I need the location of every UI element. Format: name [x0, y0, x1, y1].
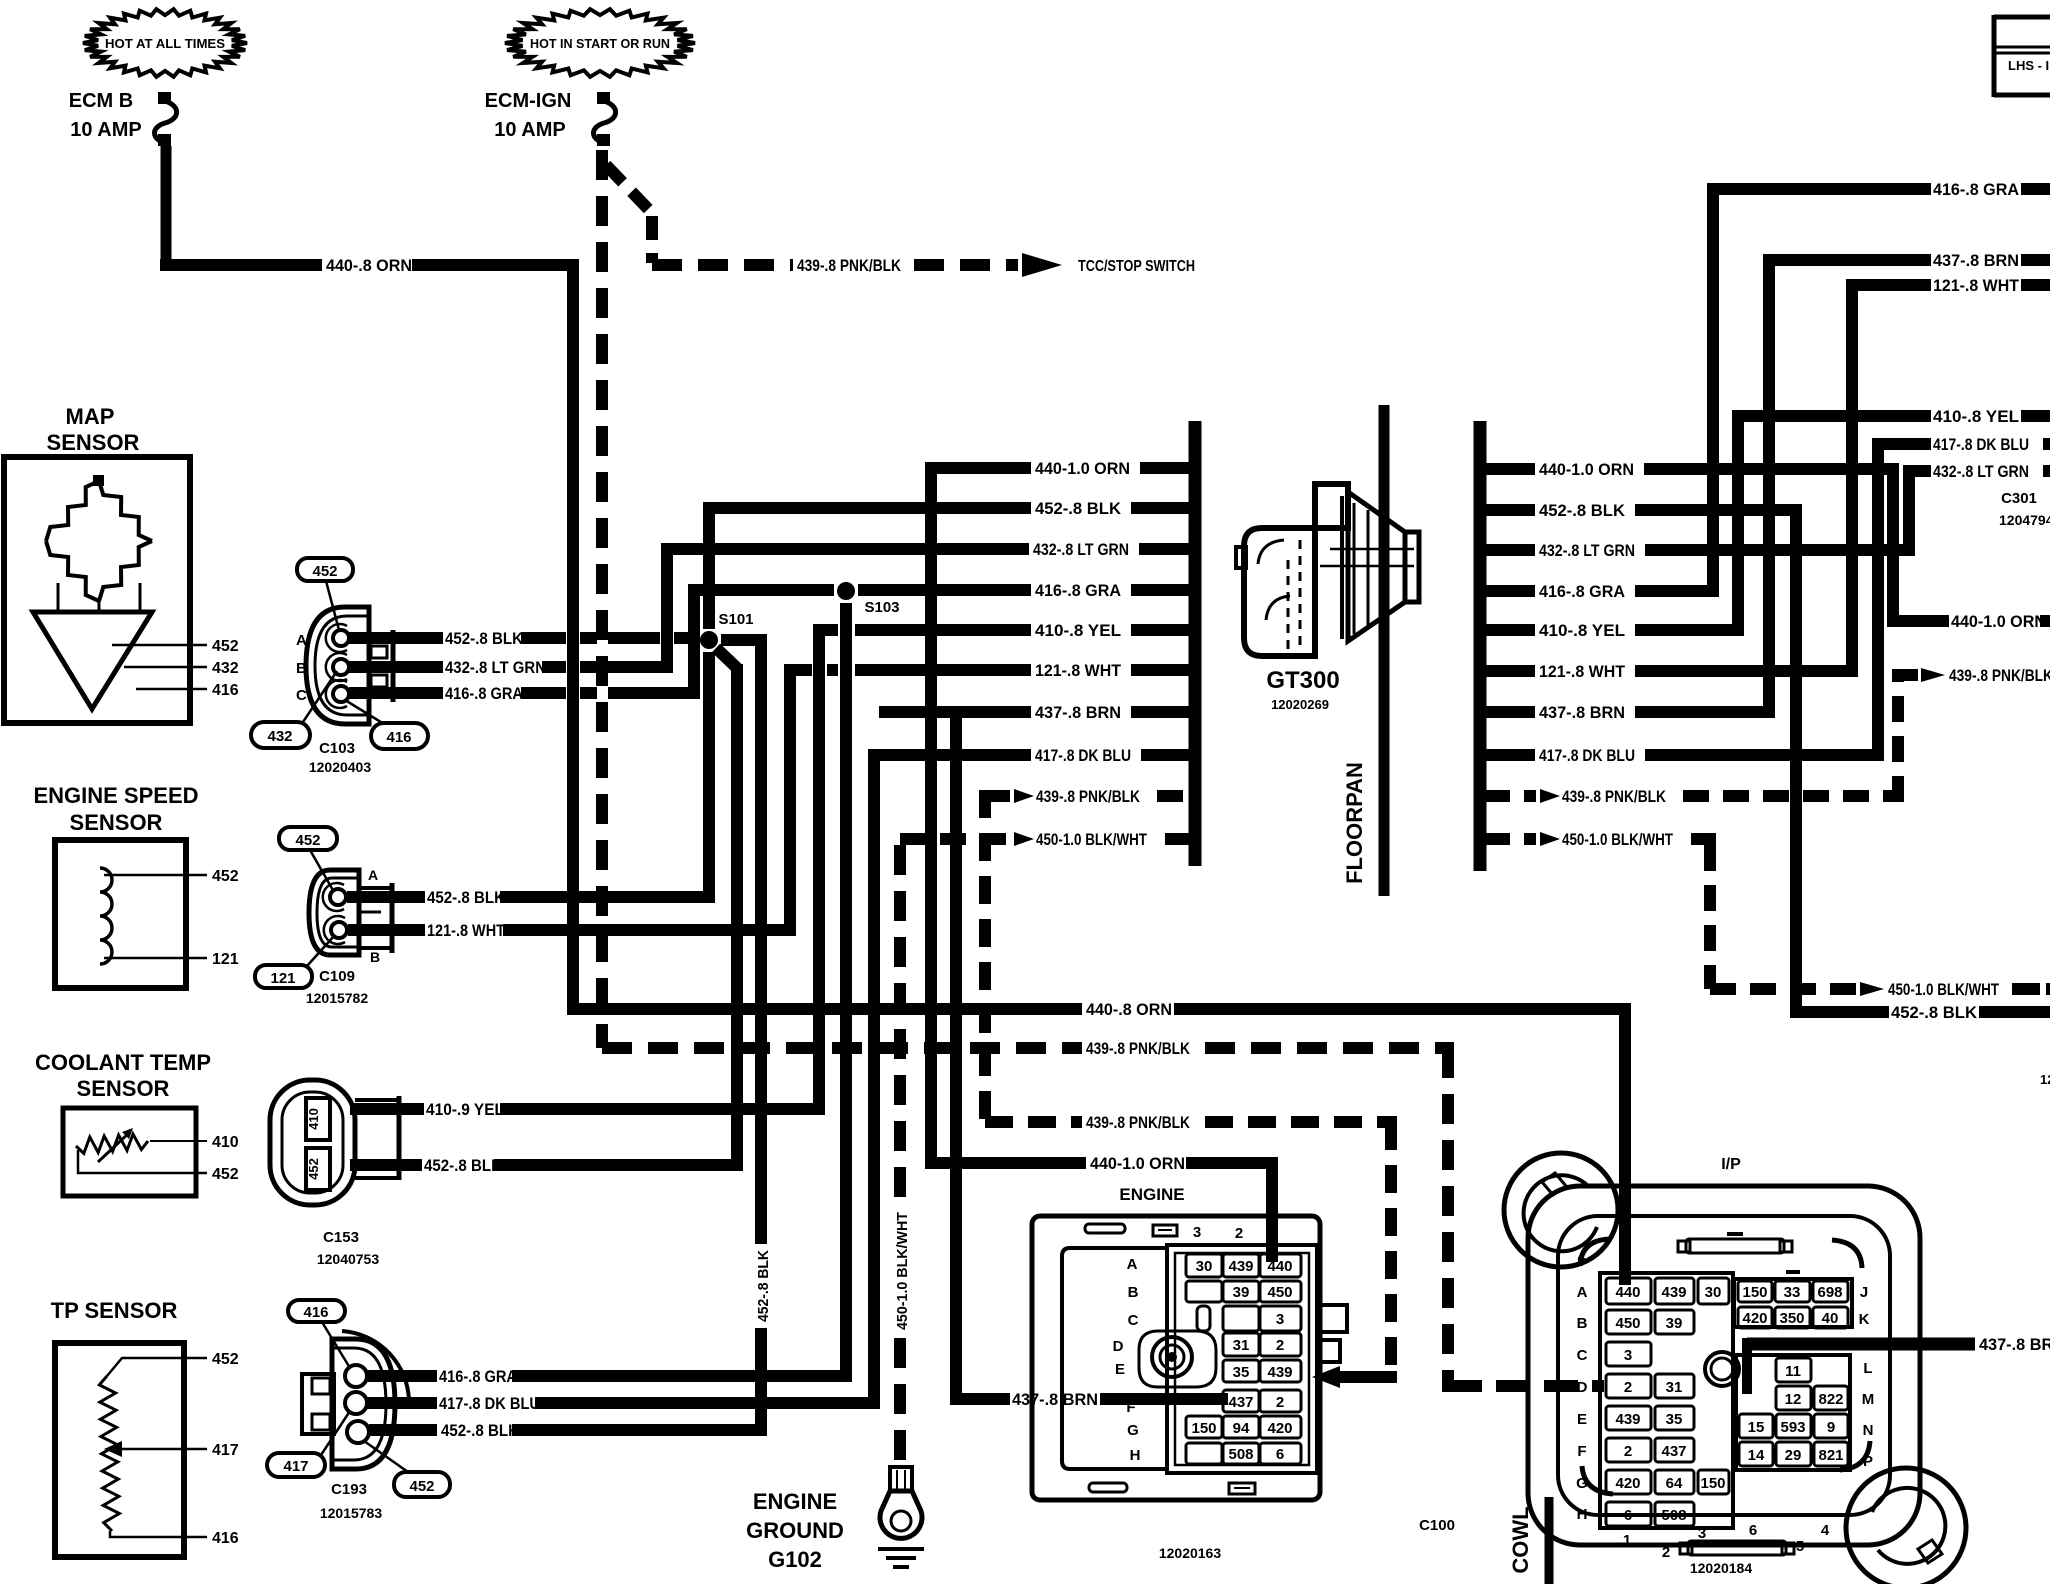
wire 452-.8 BLK C109-A segment 2: [500, 891, 715, 903]
connector C153 pin slot 410: [306, 1098, 330, 1140]
wire 432 vertical to bus stub: [661, 543, 673, 673]
I/P connector letter L: [1863, 1360, 1872, 1377]
I/P connector cell H2 508: [1655, 1502, 1694, 1526]
wire 417-.8 DK BLU exit 2: [2043, 438, 2050, 450]
wire 416-.8 GRA right-bus stub: [1484, 585, 1719, 597]
I/P connector bolt: [1705, 1352, 1739, 1386]
TP sensor lead 452: [107, 1358, 207, 1376]
svg-text:12020163: 12020163: [1159, 1545, 1222, 1561]
ENGINE connector top slots: [1085, 1224, 1177, 1236]
label 12020403: [309, 759, 372, 775]
label 439-.8 PNK/BLK (row 1048): [1086, 1039, 1191, 1058]
svg-text:410-.8 YEL: 410-.8 YEL: [1539, 621, 1625, 640]
wire 417-.8 DK BLU riser: [1872, 438, 1884, 761]
MAP sensor lead 452: [112, 644, 207, 647]
I/P connector cell M2 12: [1776, 1386, 1811, 1410]
leader 417 to C193 pin B: [321, 1411, 350, 1455]
leader 452 to pin A: [326, 581, 339, 630]
wire 416-.8 GRA C103-C segments: [521, 687, 694, 699]
svg-text:3: 3: [1624, 1347, 1632, 1364]
I/P connector corner arc TL: [1578, 1239, 1610, 1266]
arrow to TCC/STOP SWITCH: [1022, 253, 1062, 277]
svg-text:416: 416: [212, 1530, 239, 1547]
I/P connector top slot: [1678, 1234, 1792, 1253]
wire 437-.8 BRN right-bus stub: [1484, 706, 1775, 718]
note box top-right: [1994, 15, 2050, 97]
ENGINE SPEED sensor coil: [100, 868, 112, 964]
label 416-.8 GRA (mid bus): [1035, 581, 1121, 600]
svg-text:2: 2: [1235, 1225, 1243, 1242]
svg-text:2: 2: [1276, 1337, 1284, 1354]
wire 452-.8 BLK from C193-C: [369, 1424, 437, 1436]
wire 439-.8 PNK/BLK dashed vertical x1391: [1385, 1122, 1397, 1383]
I/P connector row J cells: [1738, 1281, 1848, 1302]
svg-text:1: 1: [1623, 1532, 1631, 1549]
svg-text:ECM B: ECM B: [69, 90, 133, 112]
wire 440-1.0 ORN vertical into ENGINE cell 440: [1266, 1163, 1278, 1262]
svg-text:A: A: [368, 867, 378, 883]
I/P connector letter F: [1577, 1443, 1586, 1460]
svg-text:121: 121: [270, 970, 295, 987]
svg-text:A: A: [1127, 1256, 1138, 1273]
ENGINE connector cell A2 439: [1223, 1254, 1259, 1277]
svg-text:A: A: [296, 632, 307, 649]
svg-text:121-.8 WHT: 121-.8 WHT: [1539, 662, 1626, 681]
I/P connector cell A3 30: [1698, 1278, 1729, 1304]
svg-text:C109: C109: [319, 968, 355, 985]
svg-text:MAP: MAP: [66, 404, 115, 429]
wire 452-.8 BLK C153 segment 2: [494, 1159, 743, 1171]
I/P connector left grid frame: [1600, 1273, 1733, 1528]
svg-text:15: 15: [1748, 1419, 1765, 1436]
wire 417-.8 DK BLU right-bus stub: [1484, 749, 1884, 761]
svg-text:416-.8 GRA: 416-.8 GRA: [445, 685, 523, 703]
label 432-.8 LT GRN (C103): [445, 659, 546, 677]
label COWL: [1508, 1506, 1533, 1573]
wire 437-.8 BRN into ENGINE cell: [1100, 1393, 1228, 1405]
svg-text:C: C: [1577, 1347, 1588, 1364]
svg-text:H: H: [1577, 1506, 1588, 1523]
I/P connector cell L2 11: [1776, 1358, 1811, 1382]
svg-text:E: E: [1577, 1411, 1587, 1428]
svg-text:439-.8 PNK/BLK: 439-.8 PNK/BLK: [1949, 666, 2050, 685]
I/P connector cell E2 35: [1655, 1406, 1694, 1430]
svg-text:121-.8 WHT: 121-.8 WHT: [1933, 276, 2020, 295]
junction S103 dot: [837, 582, 855, 600]
wire 437-.8 BRN riser: [1763, 254, 1775, 718]
label 452-.8 BLK (C193): [441, 1422, 519, 1440]
label 452-.8 BLK (exit): [1891, 1003, 1978, 1022]
junction S101 dot: [700, 631, 718, 649]
label 437-.8 BRN (mid bus): [1035, 703, 1121, 722]
wire 452-.8 BLK from C109-A: [347, 891, 425, 903]
svg-text:C193: C193: [331, 1481, 367, 1498]
svg-text:2: 2: [1662, 1544, 1670, 1561]
connector C193 terminal block: [302, 1374, 334, 1434]
wire 452 vertical S101 up to bus stub: [703, 502, 715, 629]
svg-text:F: F: [1126, 1399, 1135, 1416]
I/P connector housing outer: [1528, 1186, 1920, 1545]
svg-text:450-1.0 BLK/WHT: 450-1.0 BLK/WHT: [1888, 980, 1999, 999]
leader 432 to pin B: [303, 671, 337, 722]
svg-text:440: 440: [1615, 1284, 1640, 1301]
wire 450-1.0 BLK/WHT exit dashes 2: [2012, 983, 2050, 995]
label 12040753: [317, 1251, 380, 1267]
wire 439-.8 PNK/BLK exit dashed: [1898, 669, 1918, 681]
wire 452 vertical C153 to S101: [731, 664, 743, 1171]
wire 439-.8 PNK/BLK diagonal branch to TCC: [606, 165, 652, 263]
svg-text:452: 452: [312, 563, 337, 580]
svg-text:29: 29: [1785, 1447, 1802, 1464]
svg-text:150: 150: [1742, 1284, 1767, 1301]
label 417-.8 DK BLU (C301): [1933, 435, 2029, 454]
svg-text:439-.8 PNK/BLK: 439-.8 PNK/BLK: [797, 256, 902, 275]
I/P connector cell P2 29: [1776, 1442, 1811, 1466]
wire 121-.8 WHT C109-B segment 2: [503, 924, 796, 936]
wire 416-.8 GRA mid-bus stub (right of S103): [858, 584, 1191, 596]
svg-text:F: F: [1577, 1443, 1586, 1460]
svg-text:452-.8 BLK: 452-.8 BLK: [755, 1250, 772, 1322]
svg-text:452-.8 BLK: 452-.8 BLK: [1035, 499, 1122, 518]
wire 452 vertical C193 upper: [755, 634, 767, 1244]
I/P connector cell F1 2: [1606, 1438, 1651, 1462]
I/P connector cell P1 14: [1739, 1442, 1773, 1466]
svg-text:121-.8 WHT: 121-.8 WHT: [1035, 661, 1122, 680]
ENGINE connector cell E3 439: [1260, 1360, 1301, 1382]
svg-text:C: C: [1128, 1312, 1139, 1329]
label 450-1.0 BLK/WHT (exit): [1888, 980, 1999, 999]
wire 439-.8 PNK/BLK dashed vertical x985: [979, 790, 991, 1122]
wire 417-.8 DK BLU exit: [1878, 438, 1931, 450]
svg-text:432: 432: [267, 728, 292, 745]
ENGINE connector cell E2 35: [1223, 1360, 1259, 1382]
wire 439-.8 PNK/BLK right-bus stub dashed: [1484, 790, 1904, 802]
label 452-.8 BLK (C109): [427, 889, 505, 907]
label FLOORPAN: [1342, 762, 1367, 884]
arrow 439 exit: [1921, 668, 1945, 682]
svg-text:432-.8 LT GRN: 432-.8 LT GRN: [1033, 540, 1129, 559]
I/P connector letter K: [1859, 1311, 1870, 1328]
label 440-1.0 ORN (C301): [1951, 612, 2046, 631]
wire 452 vertical C193 lower: [755, 1328, 767, 1436]
label 437-.8 BRN (right bus): [1539, 703, 1625, 722]
svg-text:12: 12: [2040, 1072, 2050, 1087]
label 12020184: [1690, 1560, 1753, 1576]
I/P connector letter G: [1576, 1475, 1588, 1492]
TP pin label 416: [212, 1530, 239, 1547]
connector C109 letters: [368, 867, 380, 965]
I/P connector cell N1 15: [1739, 1414, 1773, 1438]
wire 440-.8 ORN long vertical: [567, 259, 579, 1015]
svg-text:HOT IN START OR RUN: HOT IN START OR RUN: [530, 36, 670, 51]
label 439-.8 PNK/BLK (mid bus): [1036, 787, 1141, 806]
connector C103 pin C circle: [326, 680, 349, 708]
svg-text:432: 432: [212, 660, 239, 677]
svg-text:12: 12: [1785, 1391, 1802, 1408]
ENGINE connector cell D2 31: [1223, 1333, 1259, 1356]
I/P connector LMNP block: [1736, 1355, 1850, 1470]
wire 416 vertical to bus stub: [688, 584, 700, 699]
wire 416 vertical C193 to S103: [840, 603, 852, 1382]
wire 432-.8 LT GRN from C103-B: [349, 661, 443, 673]
I/P connector corner arc BR: [1840, 1441, 1870, 1470]
ENGINE connector cell H1 empty: [1186, 1443, 1222, 1464]
I/P connector cell G2 64: [1655, 1470, 1694, 1494]
I/P connector corner arc BL: [1582, 1466, 1613, 1494]
I/P connector letter D: [1577, 1379, 1588, 1396]
ENGINE connector cell D3 2: [1260, 1333, 1301, 1356]
ENGINE connector letter C: [1128, 1312, 1139, 1329]
svg-text:14: 14: [1748, 1447, 1765, 1464]
svg-text:698: 698: [1817, 1284, 1842, 1301]
svg-text:416: 416: [303, 1304, 328, 1321]
leader 452 to C193 pin C: [364, 1441, 408, 1472]
svg-text:5: 5: [1796, 1538, 1804, 1555]
wire 440-.8 ORN horizontal segment: [160, 259, 322, 271]
connector C103 shell: [306, 607, 369, 724]
svg-text:417-.8 DK BLU: 417-.8 DK BLU: [1539, 746, 1635, 765]
svg-text:420: 420: [1267, 1420, 1292, 1437]
label 440-1.0 ORN (mid bus): [1035, 459, 1130, 478]
label TCC/STOP SWITCH: [1078, 258, 1195, 275]
I/P connector bottom slot: [1680, 1541, 1794, 1555]
wire 440-.8 ORN bottom horizontal segment: [573, 1003, 1082, 1015]
wire 410-.9 YEL segment 2: [500, 1103, 825, 1115]
label 439-.8 PNK/BLK (TCC): [797, 256, 902, 275]
wire 439-.8 PNK/BLK dashed into I/P row E: [1448, 1380, 1604, 1392]
label 439-.8 PNK/BLK (row 1122): [1086, 1113, 1191, 1132]
label 121-.8 WHT (C109): [427, 922, 505, 940]
MAP sensor pin label 416: [212, 682, 239, 699]
label 452-.8 BLK rotated: [755, 1250, 772, 1322]
svg-text:452-.8 BLK: 452-.8 BLK: [1539, 501, 1626, 520]
wire 452-.8 BLK from C153: [350, 1159, 422, 1171]
svg-text:C100: C100: [1419, 1517, 1455, 1534]
power source box "HOT IN START OR RUN": [505, 9, 695, 77]
svg-text:450: 450: [1615, 1315, 1640, 1332]
wire 437-.8 BRN top exit 2: [2021, 254, 2050, 266]
svg-text:11: 11: [1785, 1363, 1801, 1380]
svg-text:31: 31: [1666, 1379, 1683, 1396]
svg-text:2: 2: [1276, 1394, 1284, 1411]
wire 439-.8 PNK/BLK riser dashed: [1892, 669, 1904, 802]
svg-text:410-.9 YEL: 410-.9 YEL: [426, 1101, 504, 1119]
svg-text:TCC/STOP SWITCH: TCC/STOP SWITCH: [1078, 258, 1195, 275]
wire 452-.8 BLK long drop: [1790, 504, 1802, 1018]
svg-text:452-.8 BLK: 452-.8 BLK: [445, 630, 523, 648]
svg-text:N: N: [1863, 1422, 1874, 1439]
wire 121-.8 WHT right-bus stub: [1484, 665, 1858, 677]
fuse ECM-IGN label: [485, 90, 572, 141]
svg-text:K: K: [1859, 1311, 1870, 1328]
label C301: [2001, 490, 2037, 507]
svg-text:30: 30: [1705, 1284, 1722, 1301]
connector C153 pin slot 452: [306, 1148, 330, 1190]
svg-text:350: 350: [1779, 1310, 1804, 1327]
label S103: [864, 599, 899, 616]
label 439-.8 PNK/BLK (right bus): [1562, 787, 1667, 806]
svg-text:2: 2: [1624, 1443, 1632, 1460]
MAP sensor lead 416: [136, 688, 207, 691]
svg-text:12020184: 12020184: [1690, 1560, 1753, 1576]
svg-text:437: 437: [1661, 1443, 1686, 1460]
I/P connector letter A: [1577, 1284, 1588, 1301]
MAP sensor bridge (wheatstone diamond): [46, 475, 152, 601]
svg-text:450-1.0 BLK/WHT: 450-1.0 BLK/WHT: [1562, 830, 1673, 849]
svg-text:437-.8 BRN: 437-.8 BRN: [1933, 251, 2019, 270]
label S101: [718, 611, 753, 628]
wire 437-.8 BRN horizontal to ENGINE: [956, 1393, 1010, 1405]
svg-text:150: 150: [1191, 1420, 1216, 1437]
COOLANT TEMP pin label 452: [212, 1166, 239, 1183]
oval tag 416 (C103): [371, 723, 428, 749]
svg-text:12047943: 12047943: [1999, 512, 2050, 528]
leader 416 to C193 pin A: [322, 1322, 350, 1368]
wire 440-1.0 ORN exit: [1893, 615, 1949, 627]
svg-text:B: B: [1577, 1315, 1588, 1332]
svg-text:6: 6: [1276, 1446, 1284, 1463]
svg-text:ECM-IGN: ECM-IGN: [485, 90, 572, 112]
wire 432-.8 LT GRN right-bus stub: [1484, 544, 1915, 556]
I/P connector bottom numbers: [1623, 1522, 1830, 1561]
label 12047943: [1999, 512, 2050, 528]
COOLANT TEMP lead 452: [78, 1150, 207, 1173]
svg-text:ENGINE: ENGINE: [753, 1489, 837, 1514]
label 416-.8 GRA (C193): [439, 1368, 517, 1386]
arrow 439 mid stub: [1014, 789, 1034, 803]
wire 417-.8 DK BLU from C193-B: [367, 1397, 437, 1409]
svg-text:440-.8 ORN: 440-.8 ORN: [326, 256, 412, 275]
svg-text:440-1.0 ORN: 440-1.0 ORN: [1539, 460, 1634, 479]
wire S101 diagonal branch: [716, 648, 737, 668]
oval tag 121 (C109): [255, 965, 312, 988]
label GT300: [1266, 667, 1339, 694]
wire 440-1.0 ORN vertical x931: [925, 462, 937, 1169]
TP sensor lead 416: [110, 1531, 207, 1537]
svg-text:437-.8 BRN: 437-.8 BRN: [1035, 703, 1121, 722]
label 452-.8 BLK (right bus): [1539, 501, 1626, 520]
TP sensor box: [55, 1343, 184, 1557]
svg-text:452: 452: [212, 1351, 239, 1368]
svg-text:439-.8 PNK/BLK: 439-.8 PNK/BLK: [1562, 787, 1667, 806]
wire 440-1.0 ORN into ENGINE: [1186, 1157, 1278, 1169]
connector C103 pin letters: [296, 632, 307, 704]
wire 417-.8 DK BLU mid-bus stub: [871, 749, 1191, 761]
svg-text:440: 440: [1267, 1258, 1292, 1275]
I/P connector cell D1 2: [1606, 1374, 1651, 1398]
wire S101 right branch: [721, 634, 767, 646]
svg-text:L: L: [1863, 1360, 1872, 1377]
MAP sensor title: [47, 404, 140, 455]
I/P connector cell D2 31: [1655, 1374, 1694, 1398]
svg-text:450: 450: [1267, 1284, 1292, 1301]
svg-text:452: 452: [212, 638, 239, 655]
label 410-.8 YEL (C301): [1933, 407, 2019, 426]
svg-text:G: G: [1127, 1422, 1139, 1439]
fuse ECM B label: [69, 90, 142, 141]
label 121-.8 WHT (C301): [1933, 276, 2020, 295]
svg-text:6: 6: [1624, 1507, 1632, 1524]
grommet GT300 cone: [1348, 492, 1419, 641]
connector C193 pin C circle: [347, 1421, 369, 1443]
connector C109 shell: [309, 870, 359, 955]
svg-text:33: 33: [1784, 1284, 1801, 1301]
wire 121-.8 WHT riser: [1846, 279, 1858, 677]
I/P connector cell N3 9: [1814, 1414, 1848, 1438]
leader 416 to pin C: [345, 700, 384, 724]
arrow 439 right stub: [1540, 789, 1560, 803]
wire 440-.8 ORN vertical into I/P: [1619, 1009, 1631, 1285]
label 437-.8 BRN (engine): [1012, 1390, 1098, 1409]
svg-text:439: 439: [1661, 1284, 1686, 1301]
harness bus (right) vertical line: [1474, 421, 1487, 871]
ENGINE connector cell G1 150: [1186, 1416, 1222, 1438]
ENGINE SPEED sensor lead 452: [104, 874, 207, 877]
svg-text:3: 3: [1698, 1525, 1706, 1542]
svg-text:410: 410: [306, 1108, 321, 1130]
wire 452-.8 BLK C103-A segments: [521, 632, 697, 644]
ENGINE connector grid frame: [1167, 1245, 1317, 1473]
wire 121-.8 WHT mid-bus stub: [790, 664, 1191, 676]
ENGINE connector letter D: [1113, 1338, 1124, 1355]
ENGINE connector slot C1: [1197, 1306, 1210, 1331]
svg-text:416-.8 GRA: 416-.8 GRA: [1933, 180, 2019, 199]
svg-text:M: M: [1862, 1391, 1875, 1408]
svg-text:440-1.0 ORN: 440-1.0 ORN: [1951, 612, 2046, 631]
I/P connector letter B: [1577, 1315, 1588, 1332]
svg-text:31: 31: [1233, 1337, 1250, 1354]
svg-text:B: B: [370, 949, 380, 965]
connector C153 terminal bar: [355, 1096, 399, 1180]
ENGINE connector cell B1 empty: [1186, 1281, 1222, 1302]
label 417-.8 DK BLU (right bus): [1539, 746, 1635, 765]
wire 450-1.0 BLK/WHT dashed vertical upper: [894, 845, 906, 1200]
svg-text:P: P: [1863, 1453, 1873, 1470]
wire 410-.8 YEL mid-bus stub: [819, 624, 1191, 636]
label 410-.8 YEL (right bus): [1539, 621, 1625, 640]
TP pin label 417: [212, 1442, 239, 1459]
svg-text:452-.8 BLK: 452-.8 BLK: [441, 1422, 519, 1440]
svg-text:3: 3: [1276, 1311, 1284, 1328]
I/P connector cell E1 439: [1606, 1406, 1651, 1430]
svg-text:452: 452: [212, 868, 239, 885]
label 121-.8 WHT (mid bus): [1035, 661, 1122, 680]
arrow 450 right stub: [1540, 832, 1560, 846]
svg-text:416: 416: [386, 729, 411, 746]
COOLANT TEMP thermistor zigzag: [76, 1134, 148, 1154]
wire 440-.8 ORN vertical from ECM B fuse: [161, 146, 172, 271]
TP pin label 452: [212, 1351, 239, 1368]
label 416-.8 GRA (C103): [445, 685, 523, 703]
wire 416-.8 GRA from C193-A: [367, 1370, 437, 1382]
COWL line: [1545, 1497, 1554, 1584]
oval tag 416 (C193): [288, 1300, 345, 1322]
svg-text:508: 508: [1661, 1507, 1686, 1524]
I/P connector top-left ear: [1504, 1153, 1618, 1267]
wire 437-.8 BRN mid-bus stub: [879, 706, 1191, 718]
ground G102 symbol: [878, 1549, 924, 1567]
svg-text:437-.8 BRN: 437-.8 BRN: [1979, 1335, 2050, 1354]
svg-text:S103: S103: [864, 599, 899, 616]
TP sensor potentiometer zigzag: [99, 1376, 119, 1531]
label 440-.8 ORN (top): [326, 256, 412, 275]
svg-text:39: 39: [1666, 1315, 1683, 1332]
wire 416-.8 GRA mid-bus stub (left of S103): [694, 584, 834, 596]
wire 410 vertical to bus stub: [813, 624, 825, 1115]
svg-text:121-.8 WHT: 121-.8 WHT: [427, 922, 505, 940]
svg-text:40: 40: [1822, 1310, 1839, 1327]
connector C109 terminal bracket: [359, 883, 392, 953]
